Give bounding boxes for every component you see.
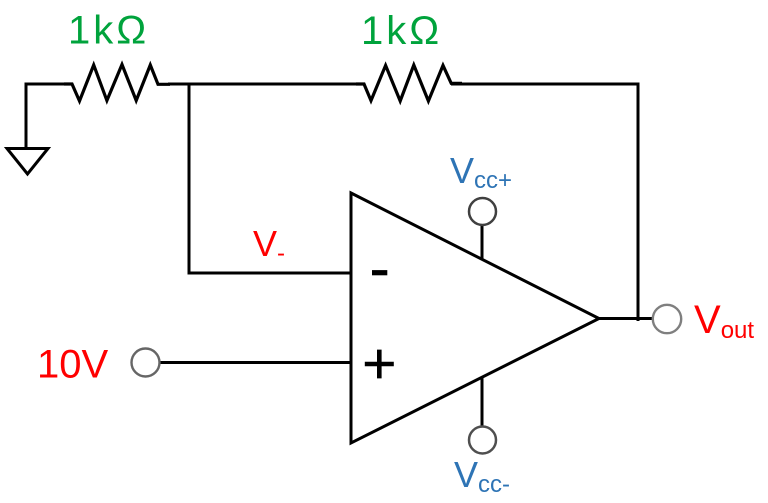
- wire output: [599, 317, 653, 320]
- wire non-inverting input: [159, 361, 351, 364]
- op-amp U1: [351, 193, 599, 443]
- node junction vertical wire: [188, 83, 191, 273]
- svg-text:Vcc+: Vcc+: [450, 150, 512, 194]
- svg-text:Vout: Vout: [694, 298, 754, 344]
- terminal Vcc+: [469, 198, 496, 225]
- resistor R1: [64, 65, 170, 102]
- wire top right to corner: [451, 83, 638, 86]
- terminal Vcc-: [469, 427, 496, 454]
- svg-text:Vcc-: Vcc-: [454, 454, 510, 498]
- terminal Vout: [653, 305, 681, 333]
- wire right vertical feedback: [637, 83, 640, 322]
- resistor R2: [356, 65, 462, 101]
- wire top between R1 and R2: [168, 83, 365, 86]
- svg-text:1kΩ: 1kΩ: [361, 9, 442, 53]
- wire Vcc+ stub: [481, 225, 484, 259]
- wire ground vertical segment: [25, 83, 28, 149]
- wire ground horizontal segment: [25, 83, 65, 86]
- svg-text:10V: 10V: [37, 343, 108, 387]
- terminal input 10V: [132, 349, 160, 377]
- op-amp inverting input marker: [372, 270, 387, 275]
- ground: [7, 149, 48, 175]
- svg-text:1kΩ: 1kΩ: [68, 9, 149, 53]
- op-amp non-inverting input marker: [365, 350, 394, 379]
- wire Vcc- stub: [481, 377, 484, 427]
- svg-text:V-: V-: [253, 223, 285, 267]
- wire inverting input: [188, 272, 352, 275]
